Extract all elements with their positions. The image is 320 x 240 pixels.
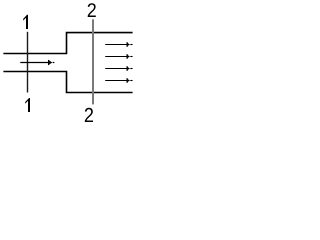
- wire small flow arrow tip dash y56.5: [130, 56, 132, 58]
- wire small flow arrow tip dash y44.5: [130, 44, 132, 46]
- node label 2 bottom: [85, 108, 93, 122]
- wire small flow arrow tip dash y68.5: [130, 68, 132, 70]
- wire small flow arrow a3 shaft: [105, 68, 126, 70]
- wire bottom duct wall: narrow section, step down at expansion, wide section: [3, 72, 132, 93]
- node section line 2-2: [92, 19, 94, 104]
- wire small flow arrow a3 head: [127, 67, 130, 71]
- node label 1 bottom: [25, 98, 30, 112]
- wire main flow arrowhead: [49, 61, 52, 65]
- wire main flow arrow tip dash: [53, 62, 55, 64]
- wire small flow arrow a4 shaft: [105, 80, 126, 82]
- wire small flow arrow a1 head: [127, 43, 130, 47]
- wire small flow arrow a1 shaft: [105, 44, 126, 46]
- wire small flow arrow tip dash y80.5: [130, 80, 132, 82]
- wire small flow arrow a2 head: [127, 55, 130, 59]
- wire small flow arrow a2 shaft: [105, 56, 126, 58]
- wire main flow arrow shaft: [20, 62, 48, 64]
- wire top duct wall: narrow section, step up at expansion, wide section: [3, 33, 132, 54]
- node label 1 top: [23, 15, 28, 29]
- node section line 1-1: [27, 32, 29, 93]
- node label 2 top: [88, 3, 96, 17]
- wire small flow arrow a4 head: [127, 79, 130, 83]
